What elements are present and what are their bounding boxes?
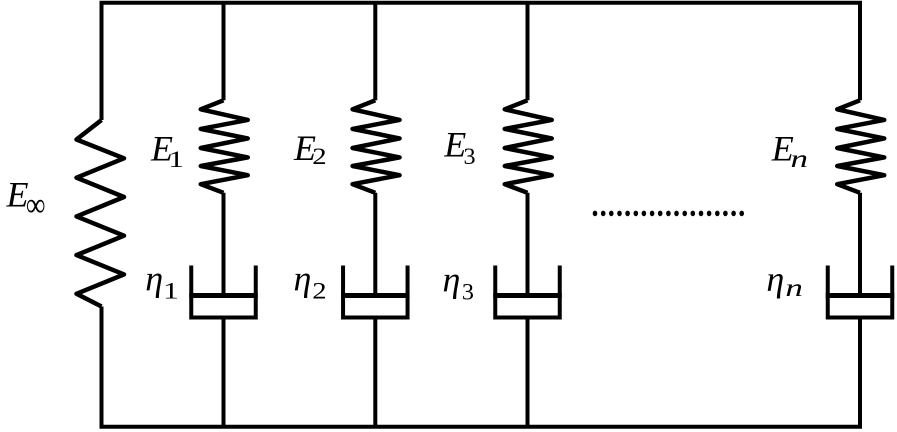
svg-text:n: n: [785, 274, 802, 302]
wire branch3 piston rod: [526, 193, 530, 293]
svg-text:3: 3: [464, 145, 476, 170]
spring E1: [201, 100, 248, 193]
dotted continuation line: [593, 211, 744, 217]
svg-text:2: 2: [312, 278, 326, 304]
svg-text:∞: ∞: [26, 185, 46, 223]
dashpot etan cylinder: [828, 266, 893, 318]
wire branch2 lower: [373, 318, 377, 427]
svg-text:η: η: [145, 259, 163, 299]
spring E2: [353, 100, 400, 193]
wire left branch lower: [100, 307, 104, 427]
wire branch2 upper: [373, 3, 377, 101]
wire top rail: [100, 1, 863, 5]
dashpot eta3 piston plate: [493, 293, 562, 298]
svg-text:3: 3: [462, 280, 474, 305]
wire branch3 lower: [526, 318, 530, 427]
svg-text:1: 1: [163, 278, 179, 304]
spring E3: [505, 100, 552, 193]
wire bottom rail: [100, 425, 863, 429]
wire branch n piston rod: [858, 193, 862, 293]
dashpot eta2 piston plate: [341, 293, 410, 298]
wire left branch upper: [100, 3, 104, 120]
dashpot eta3 cylinder: [495, 266, 560, 318]
wire branch1 upper: [222, 3, 226, 101]
svg-text:η: η: [443, 259, 461, 299]
dashpot etan piston plate: [826, 293, 895, 298]
svg-text:n: n: [791, 145, 808, 173]
svg-text:1: 1: [168, 146, 184, 172]
spring En: [837, 100, 884, 193]
svg-text:2: 2: [312, 144, 326, 170]
dashpot eta1 piston plate: [189, 293, 258, 298]
svg-text:η: η: [766, 259, 784, 299]
dashpot eta1 cylinder: [191, 266, 256, 318]
wire branch3 upper: [526, 3, 530, 101]
spring E_inf: [77, 120, 125, 307]
svg-text:η: η: [294, 259, 312, 299]
wire branch2 piston rod: [373, 193, 377, 293]
dashpot eta2 cylinder: [343, 266, 408, 318]
wire branch1 lower: [222, 318, 226, 427]
svg-text:E: E: [6, 174, 29, 214]
wire branch n lower: [858, 318, 862, 427]
wire branch1 piston rod: [222, 193, 226, 293]
wire branch n upper: [858, 3, 862, 101]
